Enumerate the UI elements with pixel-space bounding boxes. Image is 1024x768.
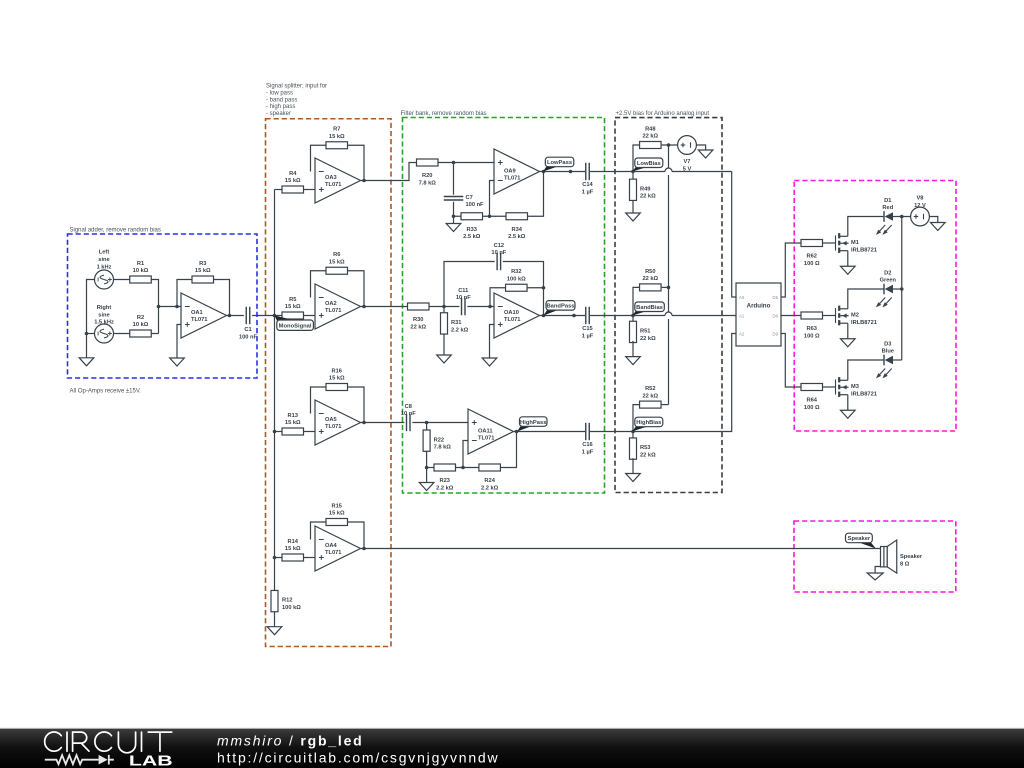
- svg-text:R3: R3: [199, 261, 206, 267]
- svg-text:sine: sine: [98, 312, 109, 318]
- svg-text:sine: sine: [98, 257, 109, 263]
- svg-text:C12: C12: [494, 243, 504, 249]
- svg-text:IRLB8721: IRLB8721: [851, 320, 877, 326]
- svg-text:D5: D5: [773, 295, 779, 300]
- svg-text:R4: R4: [289, 171, 297, 177]
- svg-text:2.2 kΩ: 2.2 kΩ: [481, 485, 499, 491]
- svg-text:7.8 kΩ: 7.8 kΩ: [419, 180, 437, 186]
- svg-text:mmshiro / rgb_led: mmshiro / rgb_led: [217, 732, 364, 748]
- svg-text:R6: R6: [333, 252, 340, 258]
- svg-text:15 kΩ: 15 kΩ: [329, 511, 345, 517]
- svg-text:C15: C15: [582, 326, 592, 332]
- svg-text:Filter bank, remove random bia: Filter bank, remove random bias: [401, 111, 487, 117]
- svg-text:- low pass: - low pass: [266, 90, 293, 96]
- svg-text:22 kΩ: 22 kΩ: [640, 336, 656, 342]
- svg-text:100 kΩ: 100 kΩ: [507, 276, 526, 282]
- svg-text:22 kΩ: 22 kΩ: [640, 194, 656, 200]
- svg-text:LowBias: LowBias: [637, 161, 661, 167]
- svg-text:R51: R51: [640, 329, 650, 335]
- svg-text:22 kΩ: 22 kΩ: [640, 453, 656, 459]
- svg-text:1 µF: 1 µF: [582, 449, 594, 455]
- svg-text:R64: R64: [807, 398, 818, 404]
- svg-text:R63: R63: [807, 326, 817, 332]
- svg-text:All Op-Amps receive ±15V.: All Op-Amps receive ±15V.: [70, 389, 142, 395]
- svg-text:R48: R48: [645, 126, 655, 132]
- svg-text:8 Ω: 8 Ω: [900, 562, 910, 568]
- svg-text:OA5: OA5: [325, 417, 337, 423]
- svg-text:7.8 kΩ: 7.8 kΩ: [434, 445, 452, 451]
- svg-text:15 kΩ: 15 kΩ: [195, 268, 211, 274]
- svg-text:R49: R49: [640, 186, 650, 192]
- svg-text:C11: C11: [458, 288, 468, 294]
- svg-text:TL071: TL071: [325, 182, 341, 188]
- svg-text:2.5 kΩ: 2.5 kΩ: [463, 234, 481, 240]
- svg-text:C16: C16: [582, 442, 592, 448]
- svg-text:15 kΩ: 15 kΩ: [285, 546, 301, 552]
- svg-text:15 kΩ: 15 kΩ: [329, 134, 345, 140]
- svg-text:R13: R13: [288, 413, 298, 419]
- svg-text:1 kHz: 1 kHz: [97, 264, 112, 270]
- svg-text:R30: R30: [413, 317, 423, 323]
- svg-text:OA11: OA11: [478, 429, 493, 435]
- svg-text:D2: D2: [884, 270, 891, 276]
- svg-text:- high pass: - high pass: [266, 104, 295, 110]
- svg-text:M1: M1: [851, 240, 859, 246]
- svg-text:R32: R32: [511, 269, 521, 275]
- svg-text:R23: R23: [440, 478, 450, 484]
- svg-text:22 kΩ: 22 kΩ: [410, 324, 426, 330]
- svg-text:C8: C8: [405, 404, 412, 410]
- svg-text:C14: C14: [582, 182, 593, 188]
- svg-text:Signal adder, remove random bi: Signal adder, remove random bias: [70, 228, 161, 234]
- svg-text:100 nF: 100 nF: [466, 202, 485, 208]
- svg-text:MonoSignal: MonoSignal: [279, 323, 312, 329]
- svg-text:10 kΩ: 10 kΩ: [133, 322, 149, 328]
- svg-text:IRLB8721: IRLB8721: [851, 391, 877, 397]
- svg-text:15 kΩ: 15 kΩ: [285, 178, 301, 184]
- svg-text:A0: A0: [739, 295, 745, 300]
- svg-text:TL071: TL071: [504, 176, 520, 182]
- svg-text:+2.5V bias for Arduino analog: +2.5V bias for Arduino analog input: [616, 111, 710, 117]
- svg-text:V8: V8: [917, 196, 924, 202]
- svg-text:R33: R33: [467, 227, 477, 233]
- svg-text:R20: R20: [422, 173, 432, 179]
- svg-text:R15: R15: [332, 503, 342, 509]
- svg-text:R53: R53: [640, 445, 650, 451]
- svg-text:100 Ω: 100 Ω: [804, 261, 820, 267]
- svg-text:Red: Red: [882, 205, 893, 211]
- svg-text:22 kΩ: 22 kΩ: [642, 276, 658, 282]
- svg-text:2.2 kΩ: 2.2 kΩ: [436, 485, 454, 491]
- svg-text:R16: R16: [332, 368, 342, 374]
- svg-text:OA9: OA9: [504, 169, 516, 175]
- svg-text:A2: A2: [739, 332, 745, 337]
- svg-text:100 Ω: 100 Ω: [804, 405, 820, 411]
- svg-text:5 V: 5 V: [683, 167, 692, 173]
- svg-text:R62: R62: [807, 254, 817, 260]
- svg-text:1 µF: 1 µF: [582, 189, 594, 195]
- svg-text:OA10: OA10: [504, 310, 519, 316]
- svg-text:HighPass: HighPass: [520, 420, 546, 426]
- svg-text:TL071: TL071: [325, 308, 341, 314]
- svg-text:10 nF: 10 nF: [401, 411, 416, 417]
- svg-text:100 Ω: 100 Ω: [804, 333, 820, 339]
- svg-text:10 nF: 10 nF: [491, 250, 506, 256]
- svg-text:OA1: OA1: [191, 310, 203, 316]
- svg-text:TL071: TL071: [325, 424, 341, 430]
- svg-text:HighBias: HighBias: [636, 420, 661, 426]
- svg-text:M2: M2: [851, 313, 859, 319]
- svg-text:C7: C7: [466, 195, 473, 201]
- svg-text:Speaker: Speaker: [848, 536, 871, 542]
- svg-text:100 nF: 100 nF: [239, 334, 258, 340]
- svg-text:R12: R12: [282, 598, 292, 604]
- svg-text:2.5 kΩ: 2.5 kΩ: [508, 234, 526, 240]
- svg-text:LowPass: LowPass: [547, 160, 572, 166]
- svg-text:1.5 kHz: 1.5 kHz: [94, 320, 114, 326]
- svg-text:Signal splitter; input for: Signal splitter; input for: [266, 84, 327, 90]
- svg-text:R5: R5: [289, 297, 296, 303]
- svg-text:22 kΩ: 22 kΩ: [642, 134, 658, 140]
- svg-text:BandBias: BandBias: [636, 305, 663, 311]
- svg-text:TL071: TL071: [504, 317, 520, 323]
- svg-text:R2: R2: [137, 315, 144, 321]
- svg-text:Arduino: Arduino: [747, 302, 771, 309]
- svg-text:R7: R7: [333, 127, 340, 133]
- svg-text:OA2: OA2: [325, 301, 337, 307]
- svg-text:V7: V7: [684, 159, 691, 165]
- svg-text:OA4: OA4: [325, 543, 338, 549]
- svg-text:Speaker: Speaker: [900, 554, 923, 560]
- svg-text:IRLB8721: IRLB8721: [851, 247, 877, 253]
- svg-text:D9: D9: [773, 332, 779, 337]
- svg-text:TL071: TL071: [191, 317, 207, 323]
- svg-text:15 kΩ: 15 kΩ: [285, 304, 301, 310]
- svg-text:OA3: OA3: [325, 175, 337, 181]
- svg-text:C1: C1: [244, 327, 251, 333]
- svg-text:R50: R50: [645, 269, 655, 275]
- svg-text:R22: R22: [434, 437, 444, 443]
- svg-text:1 µF: 1 µF: [582, 333, 594, 339]
- svg-text:15 kΩ: 15 kΩ: [285, 420, 301, 426]
- svg-text:- band pass: - band pass: [266, 97, 297, 103]
- svg-text:D1: D1: [884, 198, 891, 204]
- svg-text:10 kΩ: 10 kΩ: [133, 268, 149, 274]
- svg-text:Left: Left: [99, 250, 110, 256]
- svg-text:R1: R1: [137, 261, 144, 267]
- svg-text:D3: D3: [884, 341, 891, 347]
- svg-text:10 nF: 10 nF: [456, 295, 471, 301]
- svg-text:15 kΩ: 15 kΩ: [329, 259, 345, 265]
- svg-text:R24: R24: [484, 478, 495, 484]
- svg-text:- speaker: - speaker: [266, 111, 291, 117]
- svg-text:R14: R14: [288, 539, 299, 545]
- svg-text:R31: R31: [451, 320, 461, 326]
- svg-text:M3: M3: [851, 384, 859, 390]
- svg-text:Green: Green: [880, 278, 897, 284]
- svg-text:BandPass: BandPass: [546, 304, 574, 310]
- svg-text:Blue: Blue: [882, 349, 894, 355]
- svg-text:R34: R34: [512, 227, 523, 233]
- svg-text:100 kΩ: 100 kΩ: [282, 605, 301, 611]
- svg-text:Right: Right: [97, 305, 112, 311]
- svg-text:22 kΩ: 22 kΩ: [642, 393, 658, 399]
- svg-text:TL071: TL071: [478, 436, 494, 442]
- svg-text:12 V: 12 V: [914, 203, 926, 209]
- svg-text:LAB: LAB: [129, 752, 173, 768]
- svg-text:15 kΩ: 15 kΩ: [329, 376, 345, 382]
- svg-text:TL071: TL071: [325, 550, 341, 556]
- svg-text:R52: R52: [645, 386, 655, 392]
- svg-text:A1: A1: [739, 314, 745, 319]
- svg-text:D6: D6: [773, 314, 779, 319]
- svg-text:http://circuitlab.com/csgvnjgy: http://circuitlab.com/csgvnjgyvnndw: [217, 749, 499, 765]
- svg-text:2.2 kΩ: 2.2 kΩ: [451, 327, 469, 333]
